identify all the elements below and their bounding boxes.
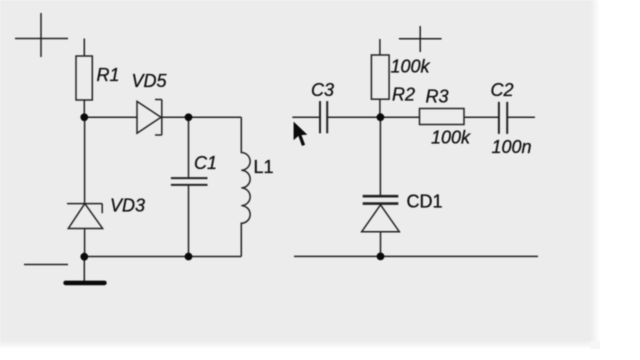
svg-text:R1: R1 — [97, 65, 120, 85]
wire node A to VD5 anode — [84, 116, 137, 118]
capacitor C1 — [171, 117, 208, 256]
svg-text:R2: R2 — [392, 85, 415, 105]
svg-text:R3: R3 — [426, 87, 449, 107]
zener diode VD3 — [67, 117, 103, 256]
sheet dash mark left — [24, 264, 68, 266]
junction node F — [377, 253, 385, 261]
svg-text:L1: L1 — [254, 157, 274, 177]
resistor R2 — [371, 39, 389, 117]
mouse cursor — [293, 121, 308, 147]
junction node D — [80, 253, 88, 261]
ground — [66, 257, 105, 283]
varicap CD1 — [362, 117, 400, 256]
junction node E — [377, 113, 385, 121]
wire node B to L1 top corner — [189, 116, 242, 118]
svg-text:C2: C2 — [491, 80, 514, 100]
svg-text:100n: 100n — [492, 137, 532, 157]
svg-text:CD1: CD1 — [407, 192, 443, 212]
junction node C — [185, 253, 193, 261]
svg-text:100k: 100k — [391, 57, 431, 77]
wire free end to C3 — [292, 116, 320, 118]
junction node A — [80, 113, 88, 121]
capacitor C3 — [320, 101, 327, 133]
svg-text:C3: C3 — [311, 80, 334, 100]
svg-text:100k: 100k — [431, 128, 471, 148]
wire C2 to free end right — [507, 116, 535, 118]
bottom wire right circuit — [294, 255, 538, 257]
svg-text:VD5: VD5 — [132, 71, 168, 91]
inductor L1 — [241, 117, 250, 256]
bottom wire left circuit — [84, 256, 241, 258]
resistor R1 — [76, 39, 92, 118]
resistor R3 — [420, 109, 465, 125]
wire C3 to node E — [327, 116, 380, 118]
wire VD5 cathode to node B — [162, 116, 189, 118]
svg-text:C1: C1 — [194, 153, 217, 173]
sheet cross mark top-left — [15, 13, 68, 57]
svg-text:VD3: VD3 — [110, 196, 145, 216]
wire node E to R3 — [380, 116, 419, 118]
capacitor C2 — [499, 102, 507, 134]
sheet cross mark top-right — [399, 26, 442, 52]
wire R3 to C2 — [464, 116, 499, 118]
diode VD5 — [137, 100, 162, 136]
junction node B — [185, 113, 193, 121]
